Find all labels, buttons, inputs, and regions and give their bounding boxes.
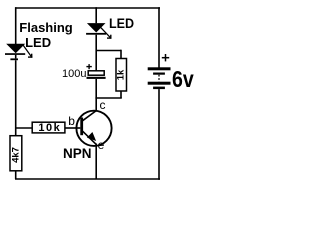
flashing LED light arrow <box>23 45 32 57</box>
wire emitter to bottom rail <box>95 144 97 180</box>
battery 6v cell2 long plate <box>148 82 171 85</box>
label 10k <box>38 122 61 134</box>
label 1k <box>116 69 127 80</box>
transistor NPN body circle <box>76 111 111 146</box>
label 100u <box>62 68 86 80</box>
wire node to 1k branch <box>96 50 121 59</box>
wire base lead left <box>15 127 33 129</box>
battery 6v cell2 short plate <box>153 87 165 90</box>
battery 6v cell1 short plate <box>153 73 165 75</box>
label 6v <box>172 66 194 93</box>
label 4k7 <box>10 147 21 163</box>
wire capacitor to collector node <box>95 79 97 111</box>
label NPN <box>63 146 92 161</box>
wire left rail upper <box>15 7 17 44</box>
label b <box>68 114 75 128</box>
wire LED to capacitor <box>95 35 97 71</box>
wire 4k7 to bottom rail <box>15 171 17 179</box>
resistor 10k <box>32 122 65 133</box>
transistor base bar <box>80 118 83 136</box>
capacitor plus sign <box>86 64 91 69</box>
label c <box>100 98 106 112</box>
label e <box>98 138 105 152</box>
transistor collector stroke <box>83 110 97 120</box>
transistor emitter stroke with arrow <box>83 131 97 145</box>
label LED <box>109 16 134 31</box>
wire right rail upper <box>158 7 160 67</box>
capacitor C1 100u minus plate <box>87 77 106 79</box>
flashing LED <box>5 44 25 61</box>
wire middle rail from top <box>95 7 97 23</box>
LED light arrow <box>100 27 111 39</box>
wire top rail <box>15 7 160 9</box>
wire 1k bottom <box>95 91 121 98</box>
battery dashed link <box>158 75 160 82</box>
resistor 4k7 <box>10 136 22 171</box>
wire bottom rail <box>15 178 160 180</box>
wire left rail middle <box>15 60 17 136</box>
resistor 1k <box>116 59 127 92</box>
wire base lead right <box>65 127 80 129</box>
LED top <box>86 23 106 35</box>
label Flashing LED <box>19 21 72 51</box>
battery plus sign <box>162 54 169 61</box>
capacitor C1 100u plus plate <box>88 71 104 75</box>
battery 6v cell1 long plate <box>148 67 171 70</box>
wire right rail lower <box>158 89 160 180</box>
